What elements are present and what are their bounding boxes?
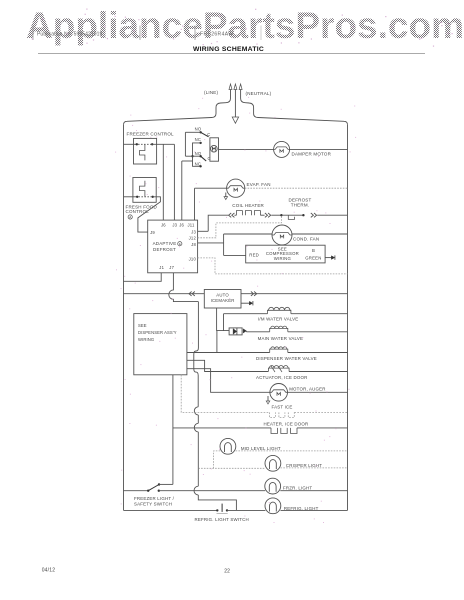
- wire J12 sensing tap: [198, 215, 282, 238]
- refrig light LP4: [265, 498, 281, 514]
- wire NO strap vertical: [184, 132, 186, 156]
- ground prong arrow into cabinet: [234, 97, 236, 118]
- defrost timer box: [210, 138, 219, 161]
- wire J3 to coil heater drop: [198, 230, 209, 232]
- connector chevrons into coil heater: [229, 213, 235, 217]
- wire left rail bottom to refrig switch: [124, 509, 218, 511]
- auto icemaker box: [204, 290, 241, 309]
- freezer safety switch arm: [148, 485, 159, 491]
- wire cond fan feed: [224, 233, 272, 235]
- fresh food circled marker: [128, 215, 132, 219]
- wire: [260, 214, 264, 216]
- freezer safety switch contact dot: [158, 490, 160, 492]
- compressor box: [246, 245, 325, 263]
- J7 weave vertical segment 1: [194, 302, 199, 407]
- wire therm span: [281, 214, 303, 216]
- actuator coil L4: [268, 365, 289, 371]
- wire auger to right rail: [288, 391, 348, 393]
- timer NC junction dot: [191, 155, 193, 157]
- fresh food control box: [133, 178, 156, 203]
- freezer control terminal dots: [136, 143, 138, 145]
- wire heater to therm: [271, 214, 281, 216]
- wire icemaker pin to fuse: [217, 308, 230, 331]
- damper motor M1: [274, 141, 290, 157]
- main water valve coil L2: [270, 326, 288, 332]
- wire refrig light to right rail: [281, 509, 348, 511]
- see dispenser assy wiring box: [134, 314, 187, 375]
- wire J6 drop (freezer): [162, 144, 164, 220]
- wire line prong to top rail: [124, 97, 231, 125]
- wire: [234, 214, 236, 216]
- fast ice heater R2 (light): [270, 412, 295, 417]
- wire cond fan to right rail: [292, 233, 348, 235]
- publication header cell borders: [32, 26, 34, 41]
- connector chevrons after therm: [311, 213, 317, 217]
- wire therm to right rail: [317, 214, 347, 216]
- title underline: [38, 52, 425, 54]
- watermark AppliancePartsPros.com: [26, 5, 464, 47]
- wire J6 second drop: [182, 160, 193, 162]
- wire mid light to right rail (light): [236, 450, 348, 452]
- inline fuse F1: [229, 328, 242, 335]
- refrig light switch dots: [216, 509, 218, 511]
- power plug neutral prong: [240, 89, 242, 97]
- wire dispenser pin to safety switch: [172, 375, 174, 485]
- freezer light LP3: [265, 478, 281, 494]
- right rail (NEUTRAL bus): [347, 125, 349, 511]
- evap fan motor M2: [227, 179, 245, 197]
- wire left rail to freezer control: [124, 143, 137, 145]
- ADC circled marker: [178, 242, 182, 246]
- timer lower NC dot: [199, 165, 201, 167]
- auger ground arrow: [267, 396, 269, 401]
- wire I/M valve tap: [223, 314, 225, 331]
- freezer safety switch arm tip dot: [158, 483, 160, 485]
- wire left rail to safety switch: [124, 490, 149, 492]
- wire fuse to main valve: [245, 330, 247, 333]
- wire dispenser pin to fast-ice row: [181, 375, 269, 413]
- J7 vertical to crisper tee: [197, 432, 199, 468]
- wire crisper row from J7: [198, 467, 265, 469]
- wire ice door heater row: [173, 427, 271, 429]
- connector chevrons icemaker feed: [189, 292, 195, 296]
- refrig light switch plunger: [221, 504, 223, 512]
- J7 hop over fast-ice row: [194, 407, 198, 415]
- timer upper NO dot: [199, 131, 201, 133]
- J7 hop over ice-door-heater row: [194, 423, 198, 432]
- J7 vertical to freezer-row hop: [197, 468, 199, 486]
- coil heater element R1: [236, 211, 260, 216]
- fresh food contact (dashed): [138, 196, 151, 198]
- wire evap fan to J11 drop: [195, 187, 227, 189]
- wire J1 to left rail: [124, 273, 162, 282]
- wire dispenser water valve row: [187, 352, 270, 354]
- wire crisper light to right rail: [281, 467, 348, 469]
- dispenser water valve coil L3: [270, 347, 288, 353]
- wire NO feed lower: [185, 155, 200, 157]
- auger motor M4: [270, 384, 288, 402]
- fuse output arrow: [243, 329, 246, 333]
- mid level light feed: [214, 451, 221, 468]
- wire freezer light to right rail: [280, 490, 347, 492]
- wire actuator feed: [187, 360, 269, 371]
- wire I/M valve to right rail: [291, 313, 348, 315]
- wire J8 to condenser/compressor node: [198, 242, 224, 244]
- wire actuator to right rail: [289, 371, 347, 373]
- evap fan ground arrow: [225, 193, 227, 197]
- defrost therm junction dot A: [280, 214, 282, 216]
- wire NO feed upper: [185, 131, 200, 133]
- J7 vertical: [197, 415, 199, 423]
- cond fan motor M3: [272, 225, 292, 245]
- left rail (LINE bus): [123, 125, 125, 511]
- wire freezer control output: [152, 143, 174, 145]
- wire fast-ice to right rail (light): [294, 411, 347, 413]
- timer lower NO dot: [199, 155, 201, 157]
- J7 wire hop over icemaker feed: [169, 273, 199, 302]
- wire neutral prong to top rail: [241, 97, 348, 125]
- wire left rail to icemaker: [124, 293, 205, 295]
- crisper light LP2: [265, 455, 281, 471]
- icemaker test arrow: [241, 302, 249, 304]
- wire arm tip to dispenser drop: [159, 483, 173, 485]
- J7 drop to refrig row: [198, 495, 236, 510]
- freezer control contact (dashed): [138, 143, 151, 145]
- wire dispenser valve to right rail: [288, 352, 348, 354]
- I/M water valve coil L1: [268, 307, 291, 313]
- wire timer to damper motor: [219, 148, 274, 150]
- wire main valve to right rail: [288, 331, 348, 333]
- wire icemaker to right rail: [241, 293, 348, 295]
- wire J3 drop (freezer): [173, 144, 175, 220]
- power plug line prong: [230, 89, 232, 97]
- wire ice door heater to right rail: [297, 427, 348, 429]
- wire I/M water valve row: [224, 313, 268, 315]
- freezer control sensing staircase: [140, 144, 145, 160]
- J7 hop over freezer light row: [194, 486, 198, 495]
- compressor green ground arrow: [325, 257, 331, 259]
- mid level light LP1: [220, 438, 236, 454]
- wire compressor feed: [224, 254, 246, 256]
- wire evap fan to right rail (light): [245, 187, 348, 189]
- wire refrig switch to lamp: [227, 509, 265, 511]
- defrost thermostat hook: [288, 215, 294, 219]
- timer lower switch arm: [201, 156, 207, 161]
- freezer safety switch pivot dot: [147, 490, 149, 492]
- fresh food terminal dots: [136, 196, 138, 198]
- wire coil heater drop from J3 row: [208, 215, 228, 231]
- wire left rail to fresh food control: [124, 196, 138, 198]
- connector chevrons out of coil heater: [265, 213, 271, 217]
- ice door heater R3: [271, 428, 297, 434]
- wire J10 to right rail (light): [198, 258, 348, 274]
- timer upper NC dot: [199, 142, 201, 144]
- wire auger feed: [187, 369, 270, 393]
- wire NC strap: [193, 143, 201, 166]
- scan noise speckles (decorative): [194, 151, 195, 152]
- wire fuse node down to dispenser row: [216, 331, 218, 353]
- defrost therm junction dot B: [302, 214, 304, 216]
- power plug ground prong: [234, 89, 236, 97]
- freezer control box: [134, 138, 157, 164]
- wire fresh food output to J9: [138, 197, 161, 232]
- wire switch to freezer light: [159, 490, 265, 492]
- timer upper switch arm: [201, 132, 209, 137]
- wire damper motor to right rail: [290, 148, 348, 150]
- defrost timer motor: [211, 145, 218, 152]
- adaptive defrost control box U1: [148, 220, 198, 273]
- connector chevrons icemaker out: [251, 292, 257, 296]
- fresh food sensing staircase: [140, 181, 145, 197]
